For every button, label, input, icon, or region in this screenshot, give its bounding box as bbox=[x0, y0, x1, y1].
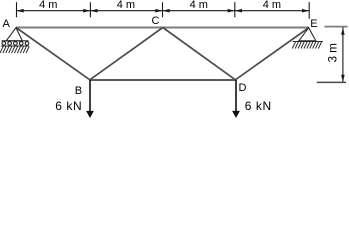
dimension tick 2 (above B) bbox=[89, 2, 91, 17]
roller support at A: triangle bbox=[6, 28, 22, 41]
roller support at A: rollers bbox=[2, 42, 29, 46]
pin support at E: triangle bbox=[299, 28, 316, 41]
pin support at E: hatching bbox=[292, 42, 321, 49]
top dimension line bbox=[17, 10, 310, 12]
3 m dimension: bottom reference line bbox=[317, 81, 346, 83]
3 m dimension: top reference line bbox=[325, 26, 348, 28]
svg-text:4 m: 4 m bbox=[190, 0, 208, 11]
3 m dimension: vertical line bbox=[342, 27, 344, 81]
svg-text:C: C bbox=[152, 15, 160, 27]
dimension tick 4 (above D) bbox=[234, 2, 236, 17]
svg-text:B: B bbox=[75, 85, 82, 97]
svg-text:6 kN: 6 kN bbox=[55, 99, 82, 113]
svg-text:4 m: 4 m bbox=[39, 0, 57, 11]
diagonal member A-B bbox=[16, 28, 90, 80]
svg-text:E: E bbox=[310, 18, 317, 30]
svg-text:3 m: 3 m bbox=[328, 43, 340, 62]
roller support at A: hatching bbox=[0, 46, 29, 53]
diagonal member C-D bbox=[163, 28, 236, 80]
3 m dimension: arrowheads bbox=[341, 28, 345, 83]
svg-text:4 m: 4 m bbox=[263, 0, 281, 11]
bottom chord member B-D bbox=[90, 79, 236, 81]
load arrow at B bbox=[86, 80, 94, 118]
dimension arrowheads top line bbox=[17, 9, 310, 13]
dimension tick 5 (above E) bbox=[308, 2, 310, 19]
diagonal member D-E bbox=[235, 28, 309, 80]
svg-text:4 m: 4 m bbox=[117, 0, 135, 11]
svg-text:D: D bbox=[239, 82, 247, 94]
pin support at E: ground line bbox=[293, 41, 323, 43]
dimension tick 3 (above C) bbox=[162, 2, 164, 17]
load arrow at D bbox=[232, 80, 240, 118]
diagonal member B-C bbox=[90, 28, 163, 80]
dimension tick 1 (above A) bbox=[16, 2, 18, 17]
svg-text:A: A bbox=[3, 18, 11, 30]
roller support at A: ground line bbox=[1, 45, 29, 47]
roller support at A: plate line bbox=[2, 40, 29, 42]
top chord member A-E bbox=[16, 27, 309, 29]
svg-text:6 kN: 6 kN bbox=[245, 99, 272, 113]
